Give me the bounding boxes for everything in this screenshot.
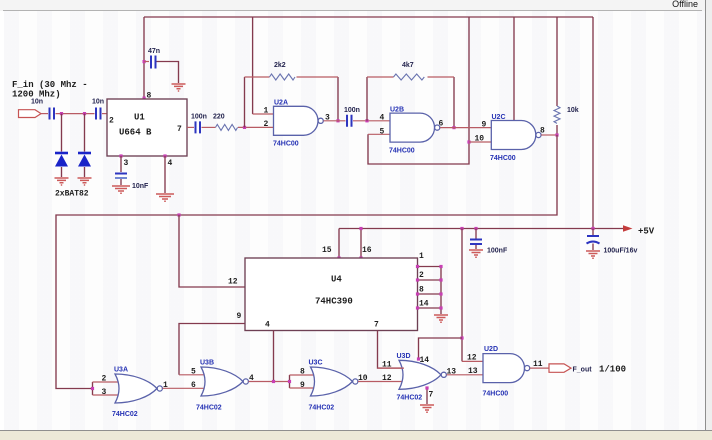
node diode 2 bbox=[83, 112, 86, 115]
svg-text:U3C: U3C bbox=[309, 360, 323, 367]
svg-text:14: 14 bbox=[419, 300, 429, 309]
wire 10nF to ground bbox=[120, 179, 122, 185]
diode D1 BAT82 bbox=[61, 114, 63, 177]
node U1 pin 3 bbox=[119, 154, 122, 157]
wire +5V top rail bbox=[144, 16, 593, 18]
node U1 pin 8 bbox=[143, 97, 146, 100]
node U3D pin7 bbox=[425, 386, 428, 389]
power +5V arrow bbox=[623, 225, 633, 231]
capacitor C 100nF bbox=[475, 229, 477, 239]
node diode 1 bbox=[60, 112, 63, 115]
node U4 pin4 junction bbox=[272, 380, 275, 383]
wire U4 pins 1,2,8,14 bus to ground bbox=[418, 267, 442, 315]
svg-text:2k2: 2k2 bbox=[274, 62, 286, 69]
svg-text:8: 8 bbox=[540, 127, 545, 136]
svg-text:U3B: U3B bbox=[200, 360, 214, 367]
wire U4 pin 16 bbox=[360, 229, 362, 259]
wire rail to U1 pin 8 bbox=[143, 17, 145, 99]
svg-text:12: 12 bbox=[467, 354, 477, 363]
svg-text:+5V: +5V bbox=[638, 227, 655, 237]
svg-text:13: 13 bbox=[468, 367, 478, 376]
svg-text:9: 9 bbox=[482, 121, 487, 130]
svg-text:9: 9 bbox=[237, 312, 242, 321]
svg-text:74HC00: 74HC00 bbox=[273, 141, 299, 148]
ground for D1 bbox=[55, 178, 69, 185]
wire 47n left lead bbox=[144, 61, 149, 63]
svg-text:U2B: U2B bbox=[390, 107, 404, 114]
svg-text:F_in (30 Mhz -: F_in (30 Mhz - bbox=[12, 80, 88, 90]
svg-text:2: 2 bbox=[102, 375, 107, 384]
resistor R 220 bbox=[216, 124, 238, 130]
wire U2C out to 10k node bbox=[541, 134, 557, 136]
wire U3A out to U3B pin 6 bbox=[163, 387, 207, 389]
node U2D supply rail bbox=[460, 227, 463, 230]
NAND gate U2A 74HC00 bbox=[274, 106, 319, 135]
connector output tag bbox=[549, 364, 571, 372]
svg-text:3: 3 bbox=[102, 388, 107, 397]
wire C1 to C2 bbox=[56, 113, 95, 115]
wire U2C node down and across to U3A bbox=[56, 135, 557, 389]
svg-text:5: 5 bbox=[380, 128, 385, 137]
wire 47n right lead bbox=[157, 62, 179, 84]
svg-text:F_out: F_out bbox=[573, 367, 593, 374]
NOR gate U3C 74HC02 bbox=[311, 367, 353, 396]
wire +5V down to U2D pin 12 bbox=[461, 229, 463, 362]
wire U1 pin 7 to 100n bbox=[187, 126, 194, 128]
svg-text:U2A: U2A bbox=[274, 100, 288, 107]
ground for 100nF bbox=[469, 250, 483, 257]
wire R220 to U2A pin 2 bbox=[238, 126, 274, 128]
svg-text:100n: 100n bbox=[191, 114, 207, 121]
node U3A feed bbox=[91, 387, 94, 390]
ground for 10nF bbox=[112, 186, 130, 193]
capacitor C 100n (interstage) bbox=[347, 115, 352, 127]
wire U3C out to U3D pin 12 bbox=[358, 381, 404, 383]
svg-text:12: 12 bbox=[382, 374, 392, 383]
wire 10k bottom lead bbox=[556, 125, 558, 135]
svg-text:2xBAT82: 2xBAT82 bbox=[55, 190, 89, 199]
ground for 100uF bbox=[586, 251, 600, 258]
wire +5V rail bbox=[339, 228, 624, 230]
svg-text:U3D: U3D bbox=[397, 353, 411, 360]
svg-text:10n: 10n bbox=[92, 99, 104, 106]
NAND gate U2B 74HC00 bbox=[390, 113, 435, 142]
svg-text:2: 2 bbox=[419, 271, 424, 280]
wire rail to U2B pin5 / U2C pin10 loop bbox=[368, 17, 469, 164]
wire U3D out to U2D pin 13 bbox=[447, 374, 484, 376]
capacitor C 100uF/16v polarized bbox=[592, 229, 594, 236]
wire U2B out to U2C pin 9 bbox=[440, 127, 491, 129]
svg-text:8: 8 bbox=[300, 368, 305, 377]
wire U3D pin 7 to ground bbox=[426, 388, 428, 404]
wire U2A out to 100n bbox=[324, 120, 346, 122]
NAND gate U2D 74HC00 bbox=[483, 354, 525, 383]
wire to U4 pin 12 bbox=[179, 215, 245, 287]
svg-text:3: 3 bbox=[124, 159, 129, 168]
capacitor C 10n second bbox=[96, 108, 101, 120]
node U4 pin12 tap bbox=[177, 213, 180, 216]
svg-text:220: 220 bbox=[213, 114, 225, 121]
svg-text:74HC02: 74HC02 bbox=[309, 405, 335, 412]
svg-text:16: 16 bbox=[362, 246, 372, 255]
node U2A output bbox=[336, 119, 339, 122]
svg-text:12: 12 bbox=[228, 278, 238, 287]
svg-text:74HC02: 74HC02 bbox=[397, 395, 423, 402]
wire to U3D pin 14 bbox=[419, 338, 463, 359]
svg-text:7: 7 bbox=[177, 125, 182, 134]
NOR gate U3D 74HC02 bbox=[399, 360, 441, 389]
node U1 pin 4 bbox=[163, 154, 166, 157]
wire U2C pin 10 bbox=[469, 141, 491, 143]
svg-text:74HC00: 74HC00 bbox=[490, 155, 516, 162]
wire C2 to U1 pin 2 bbox=[102, 113, 107, 115]
IC U4 74HC390 box bbox=[245, 258, 418, 331]
wire rail to U2C top bbox=[513, 17, 515, 121]
node U2C pin10 tap bbox=[467, 140, 470, 143]
svg-text:U1: U1 bbox=[134, 113, 145, 123]
svg-text:4: 4 bbox=[168, 159, 173, 168]
ground for U4 bus bbox=[434, 315, 448, 322]
node U3D pin14 tap bbox=[460, 336, 463, 339]
node 100nF rail bbox=[474, 227, 477, 230]
NOR gate U3A 74HC02 bbox=[115, 374, 157, 403]
svg-text:7: 7 bbox=[429, 391, 434, 400]
svg-text:U4: U4 bbox=[331, 275, 342, 285]
NOR gate U3B 74HC02 bbox=[201, 367, 243, 396]
svg-text:10: 10 bbox=[475, 135, 485, 144]
node U3C feed bbox=[288, 380, 291, 383]
resistor R 4k7 feedback loop bbox=[367, 77, 454, 128]
wire U3D pin 11 bbox=[378, 367, 405, 369]
svg-text:9: 9 bbox=[300, 381, 305, 390]
svg-text:4: 4 bbox=[380, 114, 385, 123]
svg-text:14: 14 bbox=[420, 356, 430, 365]
node pin16 rail bbox=[359, 227, 362, 230]
svg-text:U2C: U2C bbox=[492, 114, 506, 121]
ground for U3D bbox=[420, 405, 434, 412]
svg-text:8: 8 bbox=[147, 92, 152, 101]
wire U4 pin 7 down to U3D pin 11 bbox=[378, 331, 405, 369]
wire rail to U2A pin 1 bbox=[252, 17, 254, 114]
svg-text:U3A: U3A bbox=[114, 367, 128, 374]
svg-text:100nF: 100nF bbox=[487, 248, 508, 255]
svg-text:47n: 47n bbox=[148, 48, 160, 55]
wire U1 pin 4 down bbox=[164, 156, 166, 193]
capacitor C 10nF bbox=[115, 173, 127, 175]
svg-text:10k: 10k bbox=[567, 107, 579, 114]
resistor R 10k bbox=[554, 106, 560, 123]
svg-text:1: 1 bbox=[264, 107, 269, 116]
svg-text:10nF: 10nF bbox=[132, 183, 149, 190]
svg-text:U2D: U2D bbox=[484, 346, 498, 353]
wire U4 pin 9 to U3B pin 5 bbox=[179, 324, 245, 375]
capacitor C 100n (after U1) bbox=[196, 121, 201, 133]
node U2B output bbox=[452, 126, 455, 129]
svg-text:5: 5 bbox=[191, 368, 196, 377]
node pin15 box bbox=[337, 256, 340, 259]
node bus pins bbox=[416, 265, 419, 268]
wire rail right edge down to +5V rail bbox=[592, 17, 594, 229]
svg-text:100uF/16v: 100uF/16v bbox=[604, 248, 638, 255]
svg-text:7: 7 bbox=[374, 321, 379, 330]
wire 100n to R220 bbox=[202, 126, 216, 128]
ground for 47n bbox=[172, 84, 186, 91]
wire U4 pin 15 bbox=[338, 229, 340, 259]
svg-text:U664 B: U664 B bbox=[119, 128, 152, 138]
svg-text:4k7: 4k7 bbox=[402, 62, 414, 69]
svg-text:1: 1 bbox=[419, 252, 424, 261]
node U3D pin14 bbox=[417, 357, 420, 360]
svg-text:74HC02: 74HC02 bbox=[196, 405, 222, 412]
wire rail to 10k bbox=[556, 17, 558, 106]
wire input to C1 bbox=[41, 113, 48, 115]
resistor R 2k2 feedback loop bbox=[245, 77, 339, 127]
capacitor C 47n bbox=[151, 56, 156, 69]
connector input tag bbox=[19, 110, 42, 118]
node 100uF rail bbox=[591, 227, 594, 230]
svg-text:74HC02: 74HC02 bbox=[112, 411, 138, 418]
node pin16 box bbox=[359, 256, 362, 259]
wire U3B out to U3C bracket bbox=[249, 381, 290, 383]
ground for U1 pin 4 bbox=[156, 194, 174, 201]
wire U3A input bracket bbox=[92, 382, 94, 395]
NAND gate U2C 74HC00 bbox=[491, 121, 536, 150]
svg-text:2: 2 bbox=[264, 120, 269, 129]
svg-text:74HC390: 74HC390 bbox=[315, 297, 353, 307]
wire U4 pin 4 down to row bbox=[273, 331, 275, 382]
node 2k2 bottom bbox=[243, 126, 246, 129]
node U2C output bbox=[555, 133, 558, 136]
diode D2 BAT82 bbox=[84, 114, 86, 177]
capacitor C 10n first bbox=[50, 108, 55, 120]
svg-text:100n: 100n bbox=[344, 107, 360, 114]
svg-text:10n: 10n bbox=[31, 99, 43, 106]
svg-text:6: 6 bbox=[191, 381, 196, 390]
node 4k7 left bbox=[365, 119, 368, 122]
ground for D2 bbox=[78, 178, 92, 185]
svg-text:8: 8 bbox=[419, 286, 424, 295]
wire 100n to U2B pin 4 bbox=[353, 120, 390, 122]
wire U2D out to tag bbox=[530, 367, 549, 369]
svg-text:2: 2 bbox=[109, 117, 114, 126]
svg-text:1/100: 1/100 bbox=[599, 365, 626, 375]
svg-text:74HC00: 74HC00 bbox=[483, 391, 509, 398]
wire U3C input bracket bbox=[289, 375, 291, 388]
svg-text:74HC00: 74HC00 bbox=[389, 148, 415, 155]
wire U1 pin 3 down bbox=[120, 156, 122, 172]
IC U1 U664B box bbox=[107, 99, 187, 156]
svg-text:4: 4 bbox=[265, 321, 270, 330]
svg-text:15: 15 bbox=[322, 246, 332, 255]
node 47n tap bbox=[143, 60, 146, 63]
